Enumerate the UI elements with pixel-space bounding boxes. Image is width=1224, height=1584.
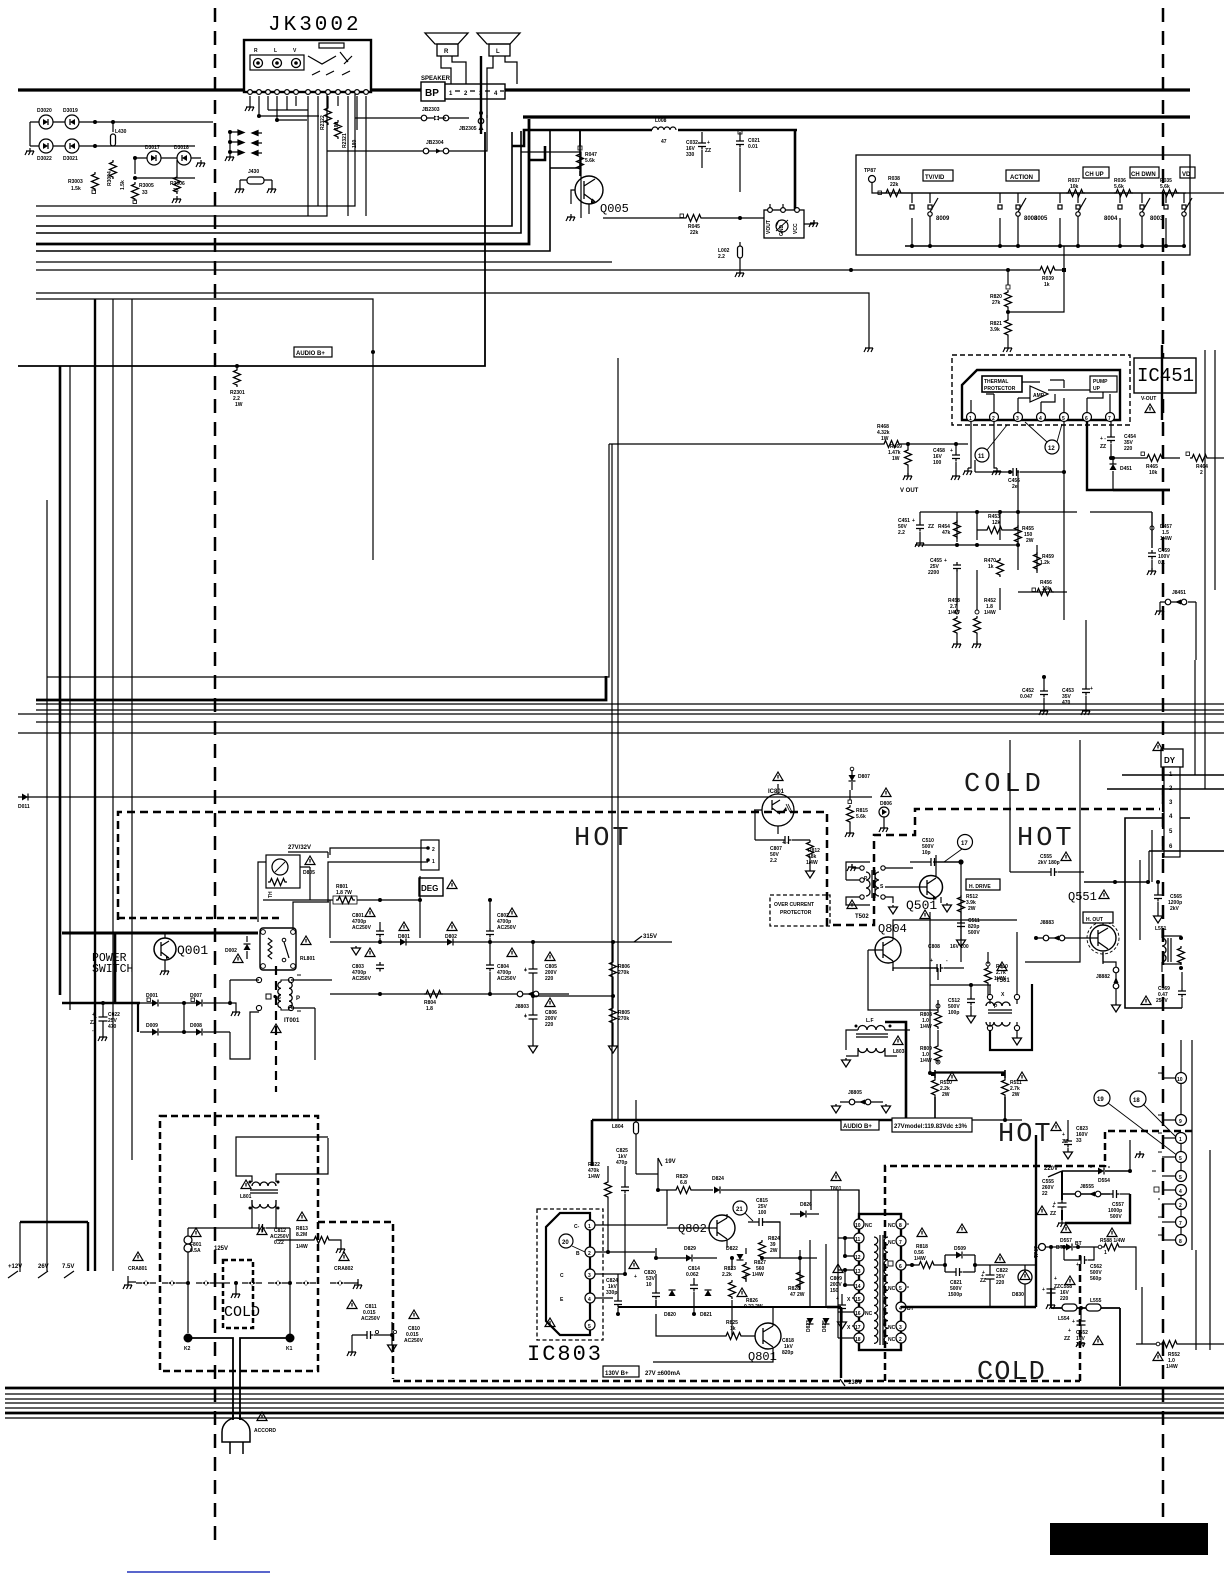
svg-text:100: 100 (758, 1210, 767, 1216)
resistor R452 1.8 (972, 598, 996, 648)
svg-text:1W: 1W (235, 402, 243, 408)
resistor R045 22k (603, 214, 795, 236)
spark gap CRA801 (123, 1252, 190, 1289)
svg-text:150: 150 (830, 1288, 839, 1294)
svg-text:D3018: D3018 (174, 145, 189, 151)
svg-text:470: 470 (108, 1024, 117, 1030)
svg-text:+ -: + - (1100, 436, 1106, 442)
resistor R2301 2.2 (230, 364, 245, 408)
bridge wires (140, 980, 259, 1059)
resistor R813 (276, 1212, 345, 1253)
svg-text:D3021: D3021 (63, 156, 78, 162)
transformer T502 (846, 862, 913, 920)
wire AUDIO to x373 (371, 350, 375, 354)
svg-text:AC250V: AC250V (352, 976, 372, 982)
svg-text:5: 5 (1179, 1175, 1182, 1181)
svg-text:**: ** (297, 974, 301, 980)
svg-text:2: 2 (1179, 1203, 1182, 1209)
svg-text:8004: 8004 (1104, 216, 1118, 222)
svg-text:220: 220 (1060, 1296, 1069, 1302)
svg-text:500V: 500V (1110, 1214, 1122, 1220)
wire: second bus y=117 (523, 115, 1190, 118)
svg-text:27V ±600mA: 27V ±600mA (645, 1371, 681, 1377)
resistor R464 (1186, 452, 1224, 476)
svg-text:1/4W: 1/4W (914, 1256, 926, 1262)
left voltage labels (8, 1222, 88, 1278)
svg-text:1/4W: 1/4W (296, 1244, 308, 1250)
resistor R455 150 (1015, 525, 1035, 544)
svg-text:OVER CURRENT: OVER CURRENT (774, 902, 814, 908)
diode D802 (445, 934, 457, 946)
T801 right pins (888, 1219, 914, 1343)
IC803 dashed box (537, 1209, 603, 1340)
svg-text:D009: D009 (146, 1023, 158, 1029)
svg-text:CH UP: CH UP (1085, 172, 1104, 178)
svg-text:D806: D806 (880, 801, 892, 807)
capacitor C823 160V 33 (1051, 1120, 1088, 1159)
connector pin column right (1135, 1040, 1192, 1250)
transformer L803 L.F. (842, 1018, 911, 1067)
DEG box (419, 878, 457, 896)
label H.DRIVE (966, 879, 1000, 890)
resistor R828 47 (788, 1270, 805, 1298)
svg-text:SPEAKER: SPEAKER (421, 76, 451, 82)
capacitor C021 0.01 (736, 130, 760, 192)
svg-text:10: 10 (1177, 1077, 1183, 1083)
dashed page split vertical x=1163 (1162, 8, 1165, 1520)
bottom right dashed boundary (885, 1131, 1192, 1381)
capacitor C802 4700p AC250V (486, 913, 517, 942)
svg-text:DEG: DEG (421, 884, 438, 893)
svg-text:HOT: HOT (998, 1120, 1053, 1150)
label ACTION (1006, 170, 1039, 181)
switch 8005 (1034, 193, 1086, 246)
capacitor C452 0.047 (1020, 675, 1048, 715)
capacitor C811 0.015 AC250V (347, 1300, 390, 1356)
svg-text:D807: D807 (858, 774, 870, 780)
resistor R3004 1.5k (107, 160, 126, 190)
switch 8003 (1150, 193, 1192, 246)
svg-text:1.8 7W: 1.8 7W (336, 890, 352, 896)
svg-text:6: 6 (278, 995, 281, 1001)
speaker L (477, 33, 520, 56)
vertical feeders left (59, 366, 62, 995)
resistor R465 10k (1109, 452, 1180, 476)
svg-text:270k: 270k (618, 1016, 629, 1022)
diode D3019 (63, 108, 79, 129)
svg-text:J8883: J8883 (1040, 920, 1054, 926)
svg-text:**: ** (1158, 1114, 1162, 1120)
wires jumpers to left bus (327, 115, 487, 151)
diode D3020 (37, 108, 53, 129)
main loop wires Q802 (595, 1174, 859, 1298)
degauss thermistor unit (258, 855, 310, 922)
svg-text:3: 3 (588, 1273, 591, 1279)
svg-text:+: + (634, 1274, 637, 1280)
capacitor C562 500V 560p (1062, 1245, 1102, 1282)
svg-text:ACTION: ACTION (1010, 175, 1033, 181)
jumper J8803 (490, 991, 569, 1010)
diode D3017 (145, 145, 161, 165)
wire pin6 thick to right (1087, 421, 1170, 490)
diode D457 (1090, 512, 1172, 548)
svg-text:J8803: J8803 (515, 1004, 529, 1010)
svg-text:33: 33 (1076, 1138, 1082, 1144)
svg-text:8005: 8005 (1034, 216, 1048, 222)
svg-text:100p: 100p (948, 1010, 959, 1016)
inductor L430 (111, 129, 127, 146)
HOT box dashed top-left (118, 809, 1160, 925)
svg-text:5: 5 (899, 1286, 902, 1292)
svg-text:R3003: R3003 (68, 179, 83, 185)
label VOL (1180, 167, 1195, 178)
thick primary wires (62, 933, 258, 1032)
svg-text:1/4W: 1/4W (1160, 536, 1172, 542)
svg-text:20: 20 (562, 1240, 569, 1246)
svg-text:1: 1 (432, 859, 435, 865)
capacitor C814 0.062 (686, 1266, 700, 1300)
resistor R825 1k (700, 1320, 755, 1340)
svg-text:+: + (1090, 686, 1093, 692)
thick loop below C557 (1065, 1194, 1130, 1223)
svg-text:PROTECTOR: PROTECTOR (984, 386, 1016, 392)
svg-text:7: 7 (899, 1240, 902, 1246)
svg-text:J8805: J8805 (848, 1090, 862, 1096)
svg-text:AC250V: AC250V (361, 1316, 381, 1322)
svg-text:AMP: AMP (1033, 393, 1045, 399)
fuse F801 0.5A (184, 1228, 228, 1283)
svg-text:TP07: TP07 (1034, 1246, 1040, 1258)
svg-text:1.8: 1.8 (426, 1006, 433, 1012)
svg-text:8.2M: 8.2M (296, 1232, 307, 1238)
svg-text:315V: 315V (643, 934, 657, 940)
svg-text:2.2: 2.2 (718, 254, 725, 260)
bridge diode D009 (146, 1023, 158, 1036)
resistor R3006 75 (170, 160, 185, 203)
svg-text:+: + (707, 140, 710, 146)
wire: left bus group y206-299 (36, 93, 355, 206)
IC451 dashed box (952, 355, 1130, 425)
resistor R826 0.22 (737, 1288, 767, 1310)
resistor R824 39 (759, 1236, 781, 1259)
svg-text:2: 2 (1200, 470, 1203, 476)
svg-text:0.1: 0.1 (1158, 560, 1165, 566)
svg-text:125V: 125V (214, 1246, 228, 1252)
svg-text:4: 4 (1039, 416, 1042, 422)
diode D3021 (63, 139, 79, 162)
diode D821 (700, 1290, 712, 1318)
svg-text:J430: J430 (248, 169, 259, 175)
svg-text:H. DRIVE: H. DRIVE (969, 884, 991, 890)
jumper J8882 (1096, 952, 1121, 1012)
svg-text:C-: C- (574, 1224, 580, 1230)
svg-text:10: 10 (646, 1282, 652, 1288)
node 12 circled (1025, 422, 1062, 454)
capacitor C825 1kV 470p (616, 1148, 629, 1220)
resistor R469 1.47k (888, 444, 919, 494)
transistor Q801 (748, 1316, 781, 1364)
resistor R815 5.6k (845, 790, 868, 837)
svg-text:D3020: D3020 (37, 108, 52, 114)
transistor Q001 power switch (154, 933, 208, 975)
svg-text:PUMP: PUMP (1093, 379, 1108, 385)
label 130V (840, 1379, 862, 1386)
svg-text:COLD: COLD (964, 770, 1045, 800)
svg-text:1: 1 (1104, 1250, 1107, 1256)
svg-text:16V 100: 16V 100 (950, 944, 969, 950)
svg-text:AC250V: AC250V (497, 976, 517, 982)
jumper J430 (235, 169, 276, 193)
svg-text:4: 4 (588, 1297, 591, 1303)
resistor R454 47k (938, 520, 961, 539)
svg-text:100: 100 (933, 460, 942, 466)
capacitor C557 1000p 500V (1108, 1190, 1130, 1220)
capacitor C812 AC250V 0.22 (252, 1224, 290, 1256)
svg-text:R2322: R2322 (320, 115, 326, 130)
svg-text:L803: L803 (893, 1049, 905, 1055)
svg-text:UP: UP (1093, 386, 1101, 392)
svg-text:TP87: TP87 (864, 168, 876, 174)
diode D829 (676, 1246, 717, 1262)
wires below JK3002 pins (250, 96, 366, 216)
transistor Q804 (868, 922, 907, 971)
svg-text:2: 2 (588, 1251, 591, 1257)
SECTION PLACEHOLDERS (25, 14, 520, 408)
resistor R2322 180 (320, 106, 340, 130)
label 27V/32V (288, 845, 328, 858)
svg-text:ZZ: ZZ (1100, 444, 1106, 450)
svg-text:V OUT: V OUT (900, 488, 919, 494)
diode D451 (1110, 456, 1133, 490)
svg-text:0.22: 0.22 (274, 1240, 284, 1246)
wires lower loop (618, 1190, 841, 1362)
node 17 circled (944, 835, 973, 863)
D509/C821 loop (945, 1255, 990, 1272)
capacitor C815 25V 100 (748, 1198, 780, 1226)
svg-text:IT001: IT001 (284, 1018, 300, 1024)
svg-text:8: 8 (1179, 1239, 1182, 1245)
svg-text:*: * (1108, 1166, 1110, 1172)
svg-text:1/4W: 1/4W (588, 1174, 600, 1180)
resistor R468 4.32k (609, 424, 968, 448)
resistor R510 2.2k (931, 1070, 952, 1120)
svg-text:2W: 2W (942, 1092, 950, 1098)
svg-text:12: 12 (855, 1255, 861, 1261)
fusible resistor R801 1.8 7W (310, 867, 420, 904)
diode D823 (806, 1318, 814, 1332)
jumper J8555 (1062, 1184, 1110, 1197)
svg-text:22k: 22k (690, 230, 699, 236)
transformer T501 (986, 932, 1032, 1050)
capacitor C807 50V 2.2 (755, 810, 810, 864)
wires filter to K (188, 1228, 290, 1338)
transformer T001 (256, 974, 332, 1060)
svg-text:**: ** (1158, 1234, 1162, 1240)
resistor R588 1 (1098, 1228, 1136, 1290)
svg-text:DY: DY (1164, 756, 1176, 765)
capacitor C459 100V 0.1 (1147, 548, 1170, 575)
svg-text:1/4W: 1/4W (984, 610, 996, 616)
svg-text:NC: NC (888, 1286, 896, 1292)
flyback area box (solid) (1125, 818, 1190, 1008)
svg-text:CRA801: CRA801 (128, 1266, 147, 1272)
inductor L804 (612, 1100, 639, 1174)
ground for x869 wire (864, 345, 873, 352)
svg-text:2W: 2W (770, 1248, 778, 1254)
svg-text:D3022: D3022 (37, 156, 52, 162)
resistor R552 1.0 (1136, 1341, 1224, 1371)
connector block JK3002 (244, 40, 371, 92)
svg-text:D008: D008 (190, 1023, 202, 1029)
svg-text:R2321: R2321 (342, 133, 348, 148)
IC451 vertical output IC body (962, 370, 1120, 420)
svg-text:+: + (1068, 1328, 1071, 1334)
switch 8004 (1104, 193, 1150, 246)
svg-text:0.047: 0.047 (1020, 694, 1033, 700)
svg-text:1k: 1k (1044, 282, 1050, 288)
svg-text:D829: D829 (684, 1246, 696, 1252)
svg-text:180: 180 (352, 139, 358, 148)
capacitor C809 200V 150 (830, 1264, 847, 1329)
warning D805 (303, 856, 315, 876)
jumper JB2304 (423, 140, 449, 154)
svg-text:6.8: 6.8 (680, 1180, 687, 1186)
T801 left pins (847, 1219, 873, 1343)
svg-text:D805: D805 (303, 870, 315, 876)
svg-text:D011: D011 (18, 804, 30, 810)
right area verticals (1010, 660, 1205, 962)
resistor R038 22k (878, 176, 1224, 197)
svg-text:ZZ: ZZ (1064, 1336, 1070, 1342)
bottom bus of switches (905, 245, 1186, 247)
resistor R459 1.2k (1034, 552, 1055, 571)
jumper JB2305 (459, 118, 484, 134)
Q804 circuit box wires (868, 920, 1017, 1044)
diode D3018 (174, 145, 191, 165)
diode D554 (1062, 1140, 1132, 1184)
svg-text:1: 1 (588, 1224, 591, 1230)
svg-text:L430: L430 (115, 129, 127, 135)
svg-text:4: 4 (1179, 1189, 1182, 1195)
svg-text:3: 3 (899, 1325, 902, 1331)
svg-text:GND: GND (779, 225, 785, 237)
capacitor C451 50V 2.2 (898, 512, 957, 547)
resistor R047 5.6k (577, 130, 598, 176)
jumper J8883 (1034, 920, 1080, 941)
resistor R039 1k (849, 246, 1066, 288)
svg-text:0.01: 0.01 (748, 144, 758, 150)
svg-text:470: 470 (1062, 700, 1071, 706)
diode D807 (849, 767, 871, 790)
svg-text:NC: NC (865, 1311, 873, 1317)
svg-text:NC: NC (888, 1337, 896, 1343)
COLD small dashed box (223, 1260, 253, 1328)
internal IC wires (971, 380, 1110, 412)
resistor R805 270k (533, 994, 630, 1044)
resistor R810 2.7k (985, 952, 1009, 995)
svg-text:HOT: HOT (1017, 824, 1075, 854)
svg-text:ZZ: ZZ (1050, 1211, 1056, 1217)
terminal K1 (286, 1334, 295, 1353)
svg-text:TV/VID: TV/VID (925, 175, 945, 181)
AC inlet dashed box (160, 1116, 318, 1371)
svg-text:1.5k: 1.5k (120, 180, 126, 190)
resistor R456 10k (1018, 580, 1054, 596)
capacitor C569 0.47 250V (1141, 972, 1186, 1008)
node 21 circled (733, 1201, 753, 1221)
wires speakers to BP (441, 56, 517, 134)
capacitor C804 4700p AC250V (486, 942, 517, 994)
svg-text:270k: 270k (618, 970, 629, 976)
jumper J8451 (1155, 590, 1196, 615)
inductor L555 (1077, 1298, 1120, 1386)
thick feed wire to Q005 loop (512, 130, 797, 218)
wire Q501 collector to H.DRIVE (933, 860, 963, 962)
over current protector dashed box (770, 895, 830, 926)
speaker R (425, 33, 468, 56)
inductor L002 2.2 (718, 242, 744, 277)
svg-text:J8555: J8555 (1080, 1184, 1094, 1190)
svg-text:47k: 47k (942, 530, 951, 536)
svg-text:D821: D821 (700, 1312, 712, 1318)
resistor R453 12k (977, 514, 1018, 534)
DY connector (1084, 749, 1224, 882)
svg-text:J8451: J8451 (1172, 590, 1186, 596)
label 220V (1044, 1166, 1062, 1177)
capacitor C022 25V 470 (90, 1003, 120, 1041)
svg-text:8009: 8009 (936, 216, 950, 222)
resistor R808 1.0 (920, 1004, 942, 1030)
label 130V B+ (603, 1366, 681, 1377)
svg-text:*: * (1158, 1198, 1160, 1204)
resistor R823 2.2k (722, 1266, 736, 1299)
diode D806 (879, 788, 892, 832)
svg-text:L804: L804 (612, 1124, 624, 1130)
capacitor C801 4700p AC250V (352, 913, 384, 942)
capacitor C558 16V 220 (1042, 1247, 1075, 1309)
svg-text:COLD: COLD (224, 1304, 260, 1321)
wires diodes (30, 122, 213, 146)
svg-text:+: + (1062, 1132, 1065, 1138)
svg-text:RL801: RL801 (300, 956, 315, 962)
inductor L554 (1051, 1288, 1077, 1322)
relay RL801 (260, 902, 329, 970)
svg-text:18: 18 (855, 1337, 861, 1343)
test point TP07 (1034, 1244, 1056, 1259)
svg-text:COLD: COLD (977, 1358, 1046, 1388)
svg-text:D802: D802 (445, 934, 457, 940)
svg-text:**: ** (1158, 1151, 1162, 1157)
svg-text:AC250V: AC250V (352, 925, 372, 931)
thick verticals below ic451 (612, 358, 618, 1120)
svg-text:D822: D822 (726, 1246, 738, 1252)
svg-text:JB2305: JB2305 (459, 126, 477, 132)
svg-text:THERMAL: THERMAL (984, 379, 1008, 385)
svg-text:**: ** (1158, 1072, 1162, 1078)
svg-text:2.2: 2.2 (898, 530, 905, 536)
svg-text:P: P (296, 996, 300, 1002)
svg-text:47 2W: 47 2W (790, 1292, 805, 1298)
switch 8008 (998, 193, 1038, 246)
svg-text:11: 11 (855, 1237, 861, 1243)
svg-text:1: 1 (969, 416, 972, 422)
svg-text:Q001: Q001 (177, 943, 208, 958)
svg-text:220: 220 (545, 1022, 554, 1028)
wire: D011 line y=797 (18, 796, 872, 798)
flyback transformer winding (1162, 930, 1185, 972)
svg-text:R3005: R3005 (139, 183, 154, 189)
svg-text:+: + (912, 518, 915, 524)
